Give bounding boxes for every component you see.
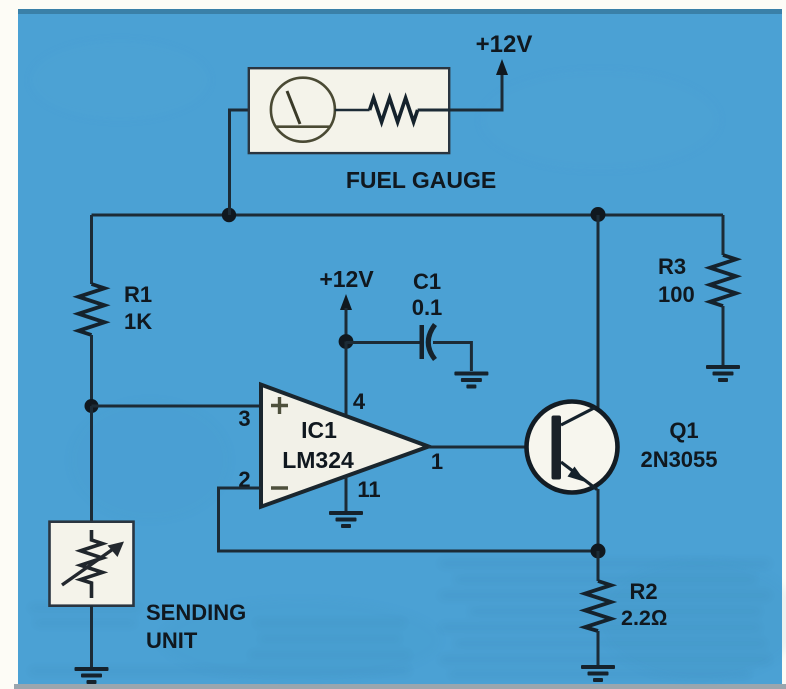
- svg-text:UNIT: UNIT: [146, 628, 198, 653]
- wire: pin 4 vertical: [345, 342, 348, 417]
- svg-text:100: 100: [658, 282, 695, 307]
- svg-text:Q1: Q1: [669, 418, 698, 443]
- resistor R1: [79, 284, 105, 335]
- svg-text:R1: R1: [124, 282, 152, 307]
- wire: node E to R2: [597, 551, 600, 581]
- svg-text:C1: C1: [413, 269, 441, 294]
- +12V supply arrow (fuel gauge): [496, 59, 508, 75]
- wire: top bus horizontal: [92, 214, 724, 217]
- svg-text:R3: R3: [658, 254, 686, 279]
- wire: sending unit to ground: [90, 606, 93, 668]
- label Q1 2N3055: [640, 418, 717, 472]
- ground (R2): [581, 665, 615, 682]
- ground (sending unit): [75, 667, 109, 684]
- op-amp plus sign: [271, 397, 288, 414]
- wire: pin 11 to ground: [345, 477, 348, 512]
- svg-text:1K: 1K: [124, 309, 152, 334]
- svg-text:FUEL GAUGE: FUEL GAUGE: [346, 167, 496, 193]
- +12V supply arrow (op-amp): [340, 294, 352, 342]
- wire: node D to C1: [346, 341, 420, 344]
- svg-text:+12V: +12V: [476, 31, 533, 58]
- wire: emitter vertical to node E: [597, 489, 600, 551]
- wire: R3 to ground: [722, 306, 725, 366]
- svg-text:2N3055: 2N3055: [640, 447, 717, 472]
- capacitor C1: [420, 325, 436, 360]
- svg-text:SENDING: SENDING: [146, 600, 246, 625]
- fuel gauge meter: [271, 78, 335, 142]
- node D (pin4 / C1): [339, 334, 354, 349]
- svg-text:R2: R2: [630, 579, 658, 604]
- wire: collector vertical from node C: [597, 215, 600, 409]
- svg-text:IC1: IC1: [301, 417, 337, 443]
- sending unit rheostat: [62, 530, 124, 598]
- fuel gauge resistor: [370, 98, 418, 122]
- node C (bus / collector branch): [591, 207, 606, 222]
- wire: resistor to +12V arrow: [418, 72, 502, 110]
- wire: fuel gauge branch vertical: [230, 110, 249, 215]
- wire: C1 to ground corner: [433, 343, 471, 372]
- label R3 100: [658, 254, 695, 307]
- sending unit box: [50, 522, 134, 606]
- svg-text:LM324: LM324: [282, 447, 354, 473]
- node B (bus / fuel gauge branch): [222, 208, 236, 222]
- node E (emitter / R2 / feedback): [591, 544, 606, 559]
- label IC1 LM324: [282, 417, 354, 473]
- svg-text:+12V: +12V: [319, 266, 374, 292]
- ground (C1): [454, 372, 488, 389]
- svg-text:0.1: 0.1: [412, 295, 443, 320]
- label R2 2.2ohm: [621, 579, 667, 630]
- wire: R2 to ground: [597, 631, 600, 666]
- svg-text:4: 4: [353, 389, 366, 414]
- label R1 1K: [124, 282, 152, 334]
- op-amp U1 IC1 triangle: [261, 385, 429, 507]
- svg-text:2.2Ω: 2.2Ω: [621, 606, 667, 630]
- wire: left vertical down to R1: [90, 215, 93, 284]
- wire: R1 bottom to node A: [90, 335, 93, 406]
- ground (pin 11): [329, 511, 363, 528]
- ground (R3): [706, 365, 740, 382]
- resistor R2: [585, 581, 611, 631]
- svg-text:11: 11: [357, 477, 380, 502]
- wire: op-amp output pin1 to Q1 base: [429, 446, 552, 449]
- label SENDING UNIT: [146, 600, 246, 653]
- svg-text:1: 1: [431, 449, 443, 474]
- wire: pin 2 feedback left/down: [219, 488, 599, 551]
- wire: bus corner down to R3: [722, 215, 725, 255]
- svg-text:3: 3: [238, 406, 250, 431]
- fuel gauge box: [249, 68, 449, 153]
- wire: meter to resistor: [335, 109, 370, 112]
- transistor Q1: [527, 402, 618, 493]
- label C1 0.1: [412, 269, 443, 320]
- wire: node A down to sending unit: [90, 406, 93, 522]
- op-amp minus sign: [271, 486, 288, 489]
- node A (R1 / sending unit / pin3): [85, 399, 99, 413]
- wire: node A to op-amp pin 3: [92, 405, 262, 408]
- resistor R3: [710, 255, 736, 306]
